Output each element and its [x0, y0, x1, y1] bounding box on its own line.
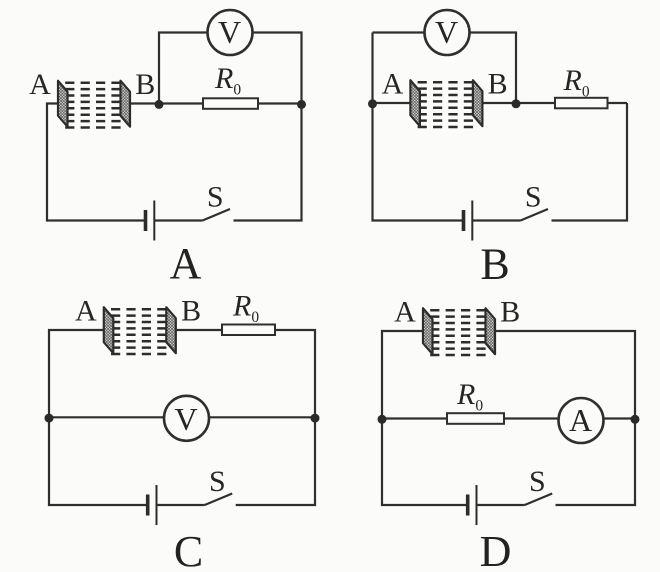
- svg-text:V: V: [218, 14, 241, 50]
- svg-text:R0: R0: [456, 378, 483, 415]
- svg-text:R0: R0: [563, 64, 590, 101]
- svg-text:V: V: [174, 401, 197, 437]
- svg-text:D: D: [480, 527, 512, 572]
- svg-text:R0: R0: [232, 290, 259, 327]
- svg-text:V: V: [435, 14, 458, 50]
- svg-text:A: A: [170, 239, 202, 288]
- svg-text:R0: R0: [214, 62, 241, 99]
- svg-text:C: C: [174, 527, 203, 572]
- svg-text:B: B: [480, 240, 509, 289]
- svg-text:A: A: [569, 402, 592, 438]
